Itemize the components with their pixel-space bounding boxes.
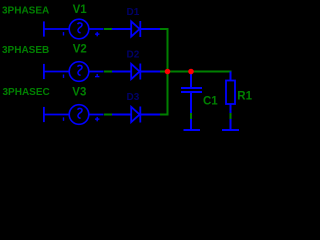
svg-text:V3: V3 (72, 87, 86, 99)
svg-text:C1: C1 (203, 96, 218, 108)
svg-text:3PHASEC: 3PHASEC (3, 87, 50, 98)
svg-text:V2: V2 (73, 43, 87, 55)
svg-text:3PHASEA: 3PHASEA (2, 6, 49, 17)
svg-text:D1: D1 (127, 7, 140, 18)
svg-text:R1: R1 (237, 90, 252, 102)
svg-text:V1: V1 (73, 4, 88, 16)
svg-text:D3: D3 (127, 92, 140, 103)
svg-text:3PHASEB: 3PHASEB (2, 45, 49, 56)
svg-text:D2: D2 (127, 50, 140, 61)
